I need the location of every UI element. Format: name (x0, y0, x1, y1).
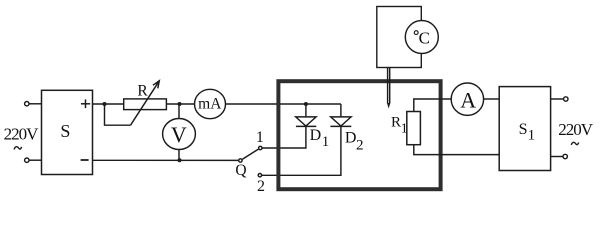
wire A to S1 (484, 98, 500, 100)
label mA (198, 95, 222, 112)
svg-text:C: C (419, 28, 430, 47)
wire R1 bottom to S1 (414, 145, 499, 155)
diode D1 (296, 104, 317, 126)
terminal right top (564, 97, 568, 101)
label R (137, 82, 148, 99)
label minus (81, 159, 89, 161)
svg-text:2: 2 (257, 178, 265, 195)
terminal right bottom (563, 154, 567, 158)
wire rheostat tap (105, 104, 131, 125)
node tap junction (103, 102, 107, 106)
svg-text:1: 1 (256, 129, 264, 146)
node V bottom junction (178, 158, 182, 162)
svg-text:V: V (171, 122, 187, 147)
wire mA to box and diodes (225, 103, 341, 105)
voltmeter V (163, 119, 196, 150)
diode D2 (330, 117, 351, 127)
wire R1 top to ammeter A (414, 99, 451, 112)
wire contact 1 to D1 (262, 126, 306, 148)
label V (171, 122, 187, 147)
svg-text:R: R (391, 114, 401, 130)
svg-text:mA: mA (198, 95, 222, 112)
terminal left bottom (25, 158, 29, 162)
wire D2 top lead (340, 104, 342, 117)
wire S1 to right bottom terminal (551, 156, 563, 158)
svg-text:220V: 220V (4, 125, 40, 144)
wire left top terminal to S (29, 103, 42, 105)
svg-text:D: D (345, 129, 357, 146)
switch Q contact 2 (258, 174, 261, 177)
terminal left top (25, 102, 29, 106)
box S1 (transformer) (499, 87, 550, 171)
switch Q contact 1 (259, 146, 262, 149)
label S (60, 121, 70, 141)
label 1 (256, 129, 264, 146)
svg-text:D: D (310, 127, 322, 144)
wire S1 to right top terminal (551, 98, 564, 100)
svg-text:R: R (137, 82, 148, 99)
wire S plus to R (93, 103, 124, 105)
label degC (414, 28, 430, 47)
node diode D1 junction (304, 102, 308, 106)
label 220V left (4, 125, 40, 144)
device box (oven) (278, 81, 440, 189)
label plus (81, 99, 90, 108)
svg-text:1: 1 (322, 134, 330, 150)
resistor R wiper arrow (131, 81, 160, 125)
svg-text:2: 2 (356, 138, 364, 154)
svg-text:220V: 220V (558, 120, 594, 139)
resistor R body (124, 99, 167, 110)
svg-text:1: 1 (401, 121, 408, 136)
label Q (235, 162, 246, 179)
label ~ left (14, 147, 22, 150)
milliammeter mA (195, 89, 226, 118)
thermometer box (377, 7, 422, 68)
switch Q blade (242, 149, 258, 159)
wire contact 2 to D2 (262, 126, 341, 175)
wire R to mA (166, 103, 194, 105)
svg-text:S: S (60, 121, 70, 141)
label ~ right (571, 142, 579, 145)
wire left bottom terminal to S (29, 159, 42, 161)
wire S minus to switch Q (93, 159, 239, 161)
svg-text:1: 1 (528, 128, 536, 144)
svg-text:Q: Q (235, 162, 246, 179)
ammeter A (451, 83, 483, 115)
label S1 (519, 121, 536, 144)
switch Q pivot (239, 159, 242, 162)
node V top junction (178, 102, 182, 106)
label 220V right (558, 120, 594, 139)
thermometer dial (405, 21, 438, 54)
label D1 (310, 127, 330, 150)
box S (autotransformer) (42, 90, 93, 174)
svg-text:A: A (460, 88, 476, 113)
label R1 (391, 114, 408, 136)
svg-text:S: S (519, 121, 528, 138)
wire V top lead (178, 104, 180, 119)
label 2 (257, 178, 265, 195)
wire V bottom lead (178, 149, 180, 160)
label D2 (345, 129, 364, 153)
thermometer probe (387, 68, 390, 109)
resistor R1 body (407, 112, 421, 145)
label A (460, 88, 476, 113)
